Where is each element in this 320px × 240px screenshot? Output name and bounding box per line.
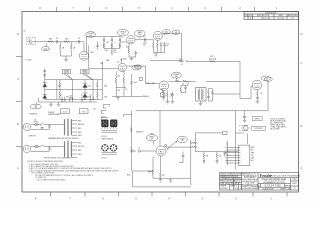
svg-text:V7: V7	[167, 149, 169, 151]
svg-text:GRN: GRN	[251, 158, 254, 160]
trem cap 2	[138, 148, 156, 153]
svg-text:BOOST: BOOST	[134, 67, 139, 69]
svg-text:VOLUME: VOLUME	[87, 33, 93, 35]
socket pair row1	[102, 120, 117, 132]
wire to ground	[61, 56, 72, 59]
wire y151	[195, 151, 238, 153]
V4 cathode columns	[112, 72, 136, 97]
svg-text:IDENT: IDENT	[292, 183, 297, 185]
svg-text:GRN: GRN	[78, 154, 81, 156]
svg-text:V1 7025: V1 7025	[26, 60, 32, 62]
svg-text:25: 25	[126, 89, 128, 91]
fuse row2	[33, 145, 41, 147]
svg-text:INSTRUMENTS: INSTRUMENTS	[244, 177, 256, 179]
svg-text:CHECKED: CHECKED	[220, 188, 228, 190]
junction resistor b	[191, 146, 198, 148]
pot INTENSITY	[177, 136, 187, 143]
ground	[64, 59, 68, 61]
svg-text:40: 40	[81, 95, 83, 97]
svg-text:13: 13	[294, 188, 296, 190]
tube V5	[159, 81, 169, 91]
resistor grid 3	[97, 80, 99, 90]
svg-text:10K: 10K	[114, 52, 117, 54]
connector labels	[251, 147, 255, 162]
svg-text:.01: .01	[130, 148, 132, 150]
B+ vertical wire	[131, 111, 133, 172]
resistor above rail	[70, 97, 74, 102]
svg-text:C: C	[300, 61, 302, 65]
cap across line row1	[33, 125, 65, 130]
svg-text:0.1: 0.1	[181, 64, 183, 66]
svg-text:SHEET 1 OF 2: SHEET 1 OF 2	[280, 188, 291, 190]
V2 bypass cap	[129, 51, 137, 58]
speaker label	[252, 117, 262, 121]
svg-text:47K: 47K	[162, 175, 165, 177]
cap on left rail 2	[44, 75, 47, 76]
resistor on wire	[147, 83, 151, 85]
ground g-row 2	[57, 102, 61, 107]
ground g-row 1	[49, 102, 53, 107]
gnd switch ovals	[30, 102, 41, 109]
stage V4 feed wire	[89, 46, 119, 69]
plate wire V1A	[87, 37, 105, 52]
wire speaker down	[235, 111, 243, 147]
svg-text:EXPORT: EXPORT	[29, 136, 36, 138]
wire reverb to output	[206, 80, 240, 82]
svg-text:CODE: CODE	[292, 179, 296, 181]
ext speaker jack	[239, 125, 250, 130]
svg-text:50K: 50K	[181, 140, 184, 142]
svg-text:10K: 10K	[206, 156, 209, 158]
long bus wire to speaker	[136, 110, 268, 112]
diode D3	[43, 83, 47, 87]
title block tolerance text	[220, 174, 245, 191]
tube V7 tremolo	[156, 146, 169, 156]
svg-text:J1: J1	[24, 31, 26, 33]
column resistor chain	[224, 141, 229, 166]
svg-text:0 2 8 3 4 7 000: 0 2 8 3 4 7 000	[265, 184, 282, 187]
cap pos above rail	[81, 97, 86, 102]
wire main preamp	[38, 41, 84, 43]
switch box POLARITY	[81, 70, 93, 80]
cap pos above rail 2	[90, 97, 95, 102]
speaker cap to ground	[243, 111, 247, 123]
svg-text:.02: .02	[78, 38, 80, 40]
output tube V6	[252, 80, 262, 90]
cap right column	[209, 89, 214, 102]
boxed label BAL	[61, 109, 70, 114]
svg-text:V10 V11: V10 V11	[101, 136, 107, 138]
zone tick marks bottom	[51, 192, 288, 197]
svg-text:100K: 100K	[175, 76, 178, 78]
RC pair 2	[216, 152, 221, 165]
box component top	[160, 90, 165, 97]
T2 secondary leads	[72, 142, 85, 157]
svg-text:6L6: 6L6	[265, 78, 268, 80]
revision table	[244, 12, 299, 20]
tone stack	[103, 37, 121, 52]
small jack circle	[164, 144, 166, 146]
resistor grid 4	[97, 90, 99, 100]
svg-text:INPUT: INPUT	[44, 49, 50, 51]
svg-text:D: D	[300, 32, 302, 36]
pot REVERB	[171, 72, 181, 81]
svg-text:1.5K: 1.5K	[166, 44, 169, 46]
svg-text:INTENS: INTENS	[180, 138, 185, 140]
rail extension + resistor	[136, 95, 149, 97]
svg-text:J.S.: J.S.	[291, 18, 295, 20]
svg-text:100K: 100K	[88, 86, 91, 88]
jack sleeve wire	[247, 134, 249, 145]
svg-text:.047: .047	[93, 109, 96, 111]
V4 plate lead	[120, 58, 122, 63]
small box	[139, 78, 142, 81]
svg-text:SPKR: SPKR	[255, 119, 260, 121]
T1 secondary leads	[72, 120, 85, 137]
svg-text:SYM: SYM	[244, 15, 248, 17]
junction dots	[160, 143, 228, 153]
reverb transformer	[196, 88, 207, 102]
AC plug row1	[22, 123, 33, 130]
svg-text:100K: 100K	[143, 43, 147, 45]
V5 cathode	[162, 91, 166, 101]
svg-text:.02: .02	[56, 38, 58, 40]
svg-text:PRE: PRE	[106, 60, 109, 62]
resistor R1	[48, 41, 54, 43]
tube V4	[117, 62, 127, 72]
svg-text:.01: .01	[138, 148, 140, 150]
svg-text:20 20: 20 20	[63, 111, 67, 113]
reverb lower cluster	[166, 91, 173, 104]
ground on rail 2	[159, 178, 163, 182]
trem resistor col 2	[160, 156, 165, 178]
svg-text:220K: 220K	[179, 59, 183, 61]
pointer arrow	[168, 141, 178, 149]
ground under V2	[130, 57, 134, 61]
svg-text:B: B	[17, 122, 19, 126]
stub left	[124, 115, 132, 118]
svg-text:20: 20	[61, 95, 63, 97]
svg-text:TREBLE: TREBLE	[120, 31, 126, 33]
resistor pair on y61	[210, 58, 216, 62]
wire V2 plate to V3	[145, 38, 154, 41]
diode D1	[83, 80, 87, 90]
fuse row1	[33, 122, 41, 126]
svg-text:220K: 220K	[123, 59, 127, 61]
label oval MIDDLE	[163, 30, 171, 36]
trem cap 1	[130, 148, 136, 153]
svg-text:PROPERTY OF FENDER: PROPERTY OF FENDER	[241, 186, 260, 188]
pot TREBLE	[118, 29, 129, 37]
resistor R4 vertical	[71, 42, 73, 56]
svg-text:PROD. REL.: PROD. REL.	[261, 18, 272, 20]
ext speaker label	[252, 126, 266, 130]
svg-text:PED: PED	[151, 134, 154, 136]
pot SPEED	[146, 135, 157, 145]
svg-text:.1: .1	[114, 42, 115, 44]
wire V3 plate right	[161, 32, 182, 34]
resistor on wire 2	[152, 83, 156, 85]
svg-text:10K: 10K	[219, 156, 222, 158]
svg-text:470: 470	[170, 94, 173, 96]
ground row rail	[39, 98, 98, 102]
capacitor C2	[79, 40, 80, 43]
output cathode column	[256, 90, 260, 103]
wire V4 to V5	[145, 66, 159, 84]
svg-text:DOMESTIC: DOMESTIC	[29, 113, 39, 115]
svg-text:EXPORT MODEL 100V 50/60Hz ONLY: EXPORT MODEL 100V 50/60Hz ONLY	[44, 157, 73, 159]
speaker impedance note	[270, 118, 286, 130]
tube V2	[126, 36, 135, 49]
svg-text:A: A	[301, 166, 303, 170]
svg-text:220K: 220K	[104, 86, 107, 88]
feed wire down to rails	[100, 62, 103, 80]
svg-text:DIMENSIONS IN INCHES: DIMENSIONS IN INCHES	[220, 176, 238, 178]
svg-text:YEL: YEL	[251, 155, 254, 157]
Fender logo	[260, 173, 301, 178]
svg-text:500: 500	[182, 84, 185, 86]
capacitor C1	[56, 40, 57, 43]
svg-text:220K: 220K	[104, 97, 107, 99]
svg-text:250K: 250K	[113, 50, 116, 52]
resistor right of transformer	[207, 89, 210, 102]
wire down x181	[150, 33, 182, 61]
trem lower box wires	[133, 171, 191, 187]
svg-text:POWER: POWER	[48, 112, 55, 114]
switch row1	[40, 123, 47, 130]
svg-text:BE 4 OHMS: BE 4 OHMS	[270, 128, 280, 130]
svg-text:±1/64 .XX±.01 .XXX±.005: ±1/64 .XX±.01 .XXX±.005	[220, 183, 237, 185]
connector block J	[226, 145, 250, 169]
label INPUT	[42, 44, 50, 51]
resistor grid 2	[59, 90, 61, 100]
output wires	[240, 62, 268, 111]
cap pair above rail	[61, 97, 66, 103]
svg-text:250K: 250K	[89, 35, 92, 37]
V2 cathode resistor	[128, 44, 130, 57]
svg-text:B: B	[301, 124, 303, 128]
zone numbers bottom	[35, 197, 273, 201]
svg-text:V12 V13: V12 V13	[101, 158, 107, 160]
svg-text:DESCRIPTION: DESCRIPTION	[257, 15, 270, 17]
svg-text:FUSE: FUSE	[34, 122, 38, 124]
svg-text:250: 250	[106, 42, 109, 44]
reverb wire	[169, 80, 196, 82]
cap across line row2	[33, 147, 65, 152]
stack lower resistor	[111, 49, 116, 56]
stack side cap	[94, 42, 99, 49]
svg-text:10-17-80: 10-17-80	[277, 18, 284, 20]
svg-text:BRN: BRN	[251, 147, 254, 149]
diode D2	[83, 90, 87, 100]
notes text block	[27, 161, 118, 181]
switch row2	[40, 145, 47, 147]
cap mid	[179, 152, 184, 163]
resistor R2 on wire	[64, 41, 70, 43]
svg-text:RED/YEL: RED/YEL	[78, 124, 85, 126]
label oval 2	[172, 30, 180, 34]
zone letters right	[300, 32, 302, 170]
svg-text:4.7K: 4.7K	[58, 86, 61, 88]
svg-text:250K: 250K	[105, 50, 108, 52]
wire y61 to right	[190, 61, 240, 63]
bracket small A	[103, 105, 110, 109]
reverb components	[176, 80, 189, 93]
svg-text:SCALE NONE: SCALE NONE	[263, 187, 275, 190]
zone tick marks top	[57, 7, 255, 12]
label oval on wire	[132, 65, 142, 70]
svg-text:EXT SPKR: EXT SPKR	[255, 128, 264, 130]
boxed label HUM	[79, 109, 88, 114]
bracket small B	[101, 110, 106, 113]
svg-text:RED/YEL: RED/YEL	[78, 146, 85, 148]
AC plug row2	[22, 145, 33, 152]
zone numbers top	[39, 6, 277, 10]
ground under transformer	[199, 101, 203, 106]
title block	[220, 173, 299, 191]
resistor on B+ wire	[131, 128, 133, 132]
tube V1A	[79, 42, 94, 61]
svg-text:100K: 100K	[134, 82, 138, 84]
pot BASS	[135, 30, 145, 39]
pot VOLUME	[86, 32, 96, 38]
zone ticks left	[16, 57, 22, 147]
grid rails	[45, 69, 103, 100]
wire to output stage	[213, 93, 240, 95]
junction resistor a	[191, 142, 198, 144]
svg-text:APPROVED: APPROVED	[288, 14, 299, 17]
wire stack to V2	[120, 40, 146, 42]
resistor R3 vertical	[60, 42, 62, 56]
power transformer T1	[64, 119, 72, 137]
zone letters left	[17, 32, 19, 170]
switch box GROUND	[62, 70, 72, 80]
revision table text	[244, 13, 298, 21]
svg-text:GRN: GRN	[78, 135, 81, 137]
V4 output wire	[127, 65, 146, 67]
svg-text:A: A	[17, 166, 19, 170]
svg-text:V4: V4	[117, 62, 119, 64]
ground under V4	[116, 97, 120, 101]
diode D4	[43, 94, 47, 98]
ground on rail	[169, 178, 173, 182]
extra cap column	[171, 92, 175, 104]
tube V3	[153, 31, 162, 40]
output tube label ovals	[261, 76, 272, 81]
svg-text:UNLESS OTHERWISE SPECIFIED: UNLESS OTHERWISE SPECIFIED	[220, 174, 245, 176]
title block drawing title text	[259, 178, 297, 191]
svg-text:C: C	[17, 77, 19, 81]
trem resistor col 1	[149, 157, 154, 178]
title block address text	[240, 173, 260, 190]
svg-text:D: D	[17, 32, 19, 36]
svg-text:250K: 250K	[138, 34, 141, 36]
input jack J1	[26, 38, 38, 45]
svg-text:.047: .047	[143, 36, 146, 38]
RC pair 1	[203, 152, 208, 165]
trem wire right	[166, 140, 191, 185]
svg-text:MUSICAL INSTRUMENTS: MUSICAL INSTRUMENTS	[270, 175, 301, 178]
socket pair row2	[101, 144, 117, 154]
svg-text:70 70: 70 70	[82, 111, 86, 113]
svg-text:10-80: 10-80	[234, 188, 238, 190]
svg-text:TREMOLO: TREMOLO	[136, 132, 144, 134]
svg-text:250K: 250K	[121, 33, 124, 35]
power transformer T2	[64, 141, 72, 159]
svg-text:1.5K: 1.5K	[117, 90, 120, 92]
svg-text:56: 56	[261, 93, 263, 95]
border frame	[22, 12, 299, 193]
svg-text:820: 820	[118, 76, 121, 78]
svg-text:TWIN REVERB AMP: TWIN REVERB AMP	[262, 178, 286, 182]
tremolo feed verticals	[160, 111, 223, 152]
svg-text:.25: .25	[170, 95, 172, 97]
trem bottom rail	[153, 177, 191, 179]
svg-text:REVISIONS: REVISIONS	[266, 13, 278, 15]
svg-text:REV A: REV A	[285, 184, 291, 187]
cap on left rail	[44, 71, 47, 72]
svg-text:DATE: DATE	[278, 14, 283, 17]
mid rail	[116, 86, 126, 88]
V3 cathode cluster	[153, 40, 170, 56]
svg-text:BLK: BLK	[251, 160, 254, 162]
svg-text:40: 40	[90, 95, 92, 97]
svg-text:C. ALL OTHER CONTROLS AT MIN.: C. ALL OTHER CONTROLS AT MIN. *	[36, 178, 67, 181]
svg-text:GRN: GRN	[78, 132, 81, 134]
svg-text:BLU: BLU	[251, 150, 254, 152]
svg-text:25: 25	[166, 45, 168, 47]
svg-text:10K: 10K	[70, 96, 73, 98]
resistor grid 1	[59, 80, 61, 90]
bracket small C	[101, 117, 108, 121]
driver cluster	[179, 59, 189, 66]
svg-text:6.8K: 6.8K	[66, 97, 69, 99]
svg-text:REVERB: REVERB	[173, 74, 179, 76]
